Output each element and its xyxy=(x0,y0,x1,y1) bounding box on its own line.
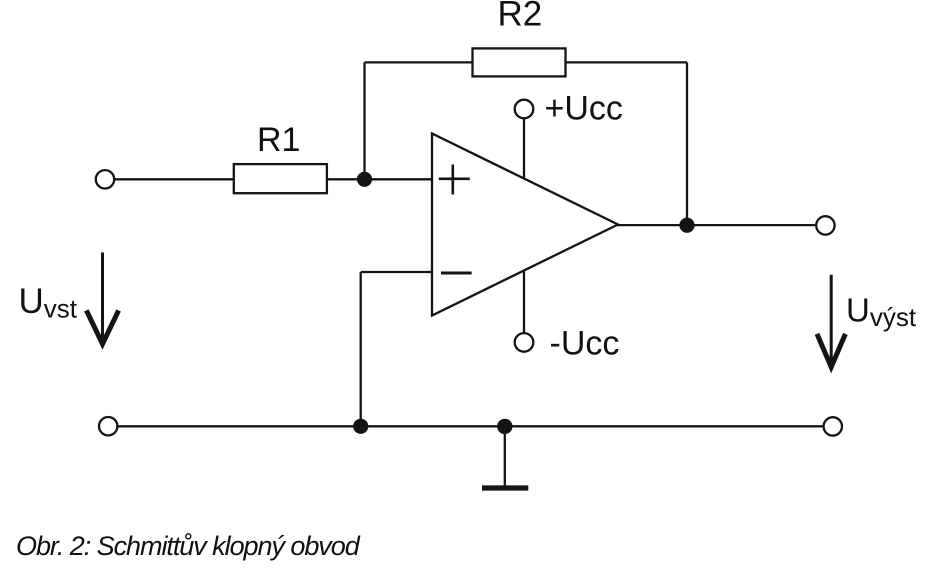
wire R2 to right vertical xyxy=(566,61,688,63)
op-amp plus input symbol xyxy=(439,165,470,195)
wire ground stem xyxy=(504,426,506,485)
wire bottom rail xyxy=(117,425,823,427)
op-amp U1 xyxy=(432,134,618,316)
wire feedback right vertical xyxy=(686,62,688,225)
terminal input circle xyxy=(96,170,114,188)
terminal bottom-right circle xyxy=(824,417,842,435)
wire -Ucc stem xyxy=(523,271,525,334)
svg-text:Obr. 2: Schmittův klopný obvod: Obr. 2: Schmittův klopný obvod xyxy=(16,531,361,561)
wire +Ucc stem xyxy=(523,118,525,178)
wire node A to R2 xyxy=(365,61,473,63)
output node junction dot xyxy=(679,218,694,233)
resistor R1 xyxy=(234,164,327,193)
arrow Uvyst xyxy=(817,275,845,367)
svg-text:Uvst: Uvst xyxy=(19,282,78,324)
wire R1 to op-amp + input xyxy=(327,178,432,180)
wire op-amp - input horizontal xyxy=(361,271,432,273)
svg-text:R2: R2 xyxy=(498,0,543,33)
svg-text:R1: R1 xyxy=(257,121,300,159)
terminal output circle xyxy=(816,216,834,234)
svg-text:-Ucc: -Ucc xyxy=(550,325,620,363)
-Ucc terminal circle xyxy=(515,333,534,352)
wire - input vertical down xyxy=(360,272,362,426)
resistor R2 xyxy=(473,48,566,76)
node ground junction dot xyxy=(497,419,512,434)
arrow Uvst xyxy=(86,253,118,345)
op-amp minus input symbol xyxy=(441,272,472,275)
svg-text:Uvýst: Uvýst xyxy=(846,291,917,332)
node B junction dot xyxy=(353,419,368,434)
wire op-amp output xyxy=(617,224,816,226)
terminal bottom-left circle xyxy=(99,417,117,435)
ground xyxy=(482,485,528,490)
+Ucc terminal circle xyxy=(515,100,534,119)
wire feedback left vertical xyxy=(363,62,365,179)
wire input to R1 xyxy=(114,178,234,180)
svg-text:+Ucc: +Ucc xyxy=(545,90,623,128)
node A junction dot xyxy=(357,172,372,187)
